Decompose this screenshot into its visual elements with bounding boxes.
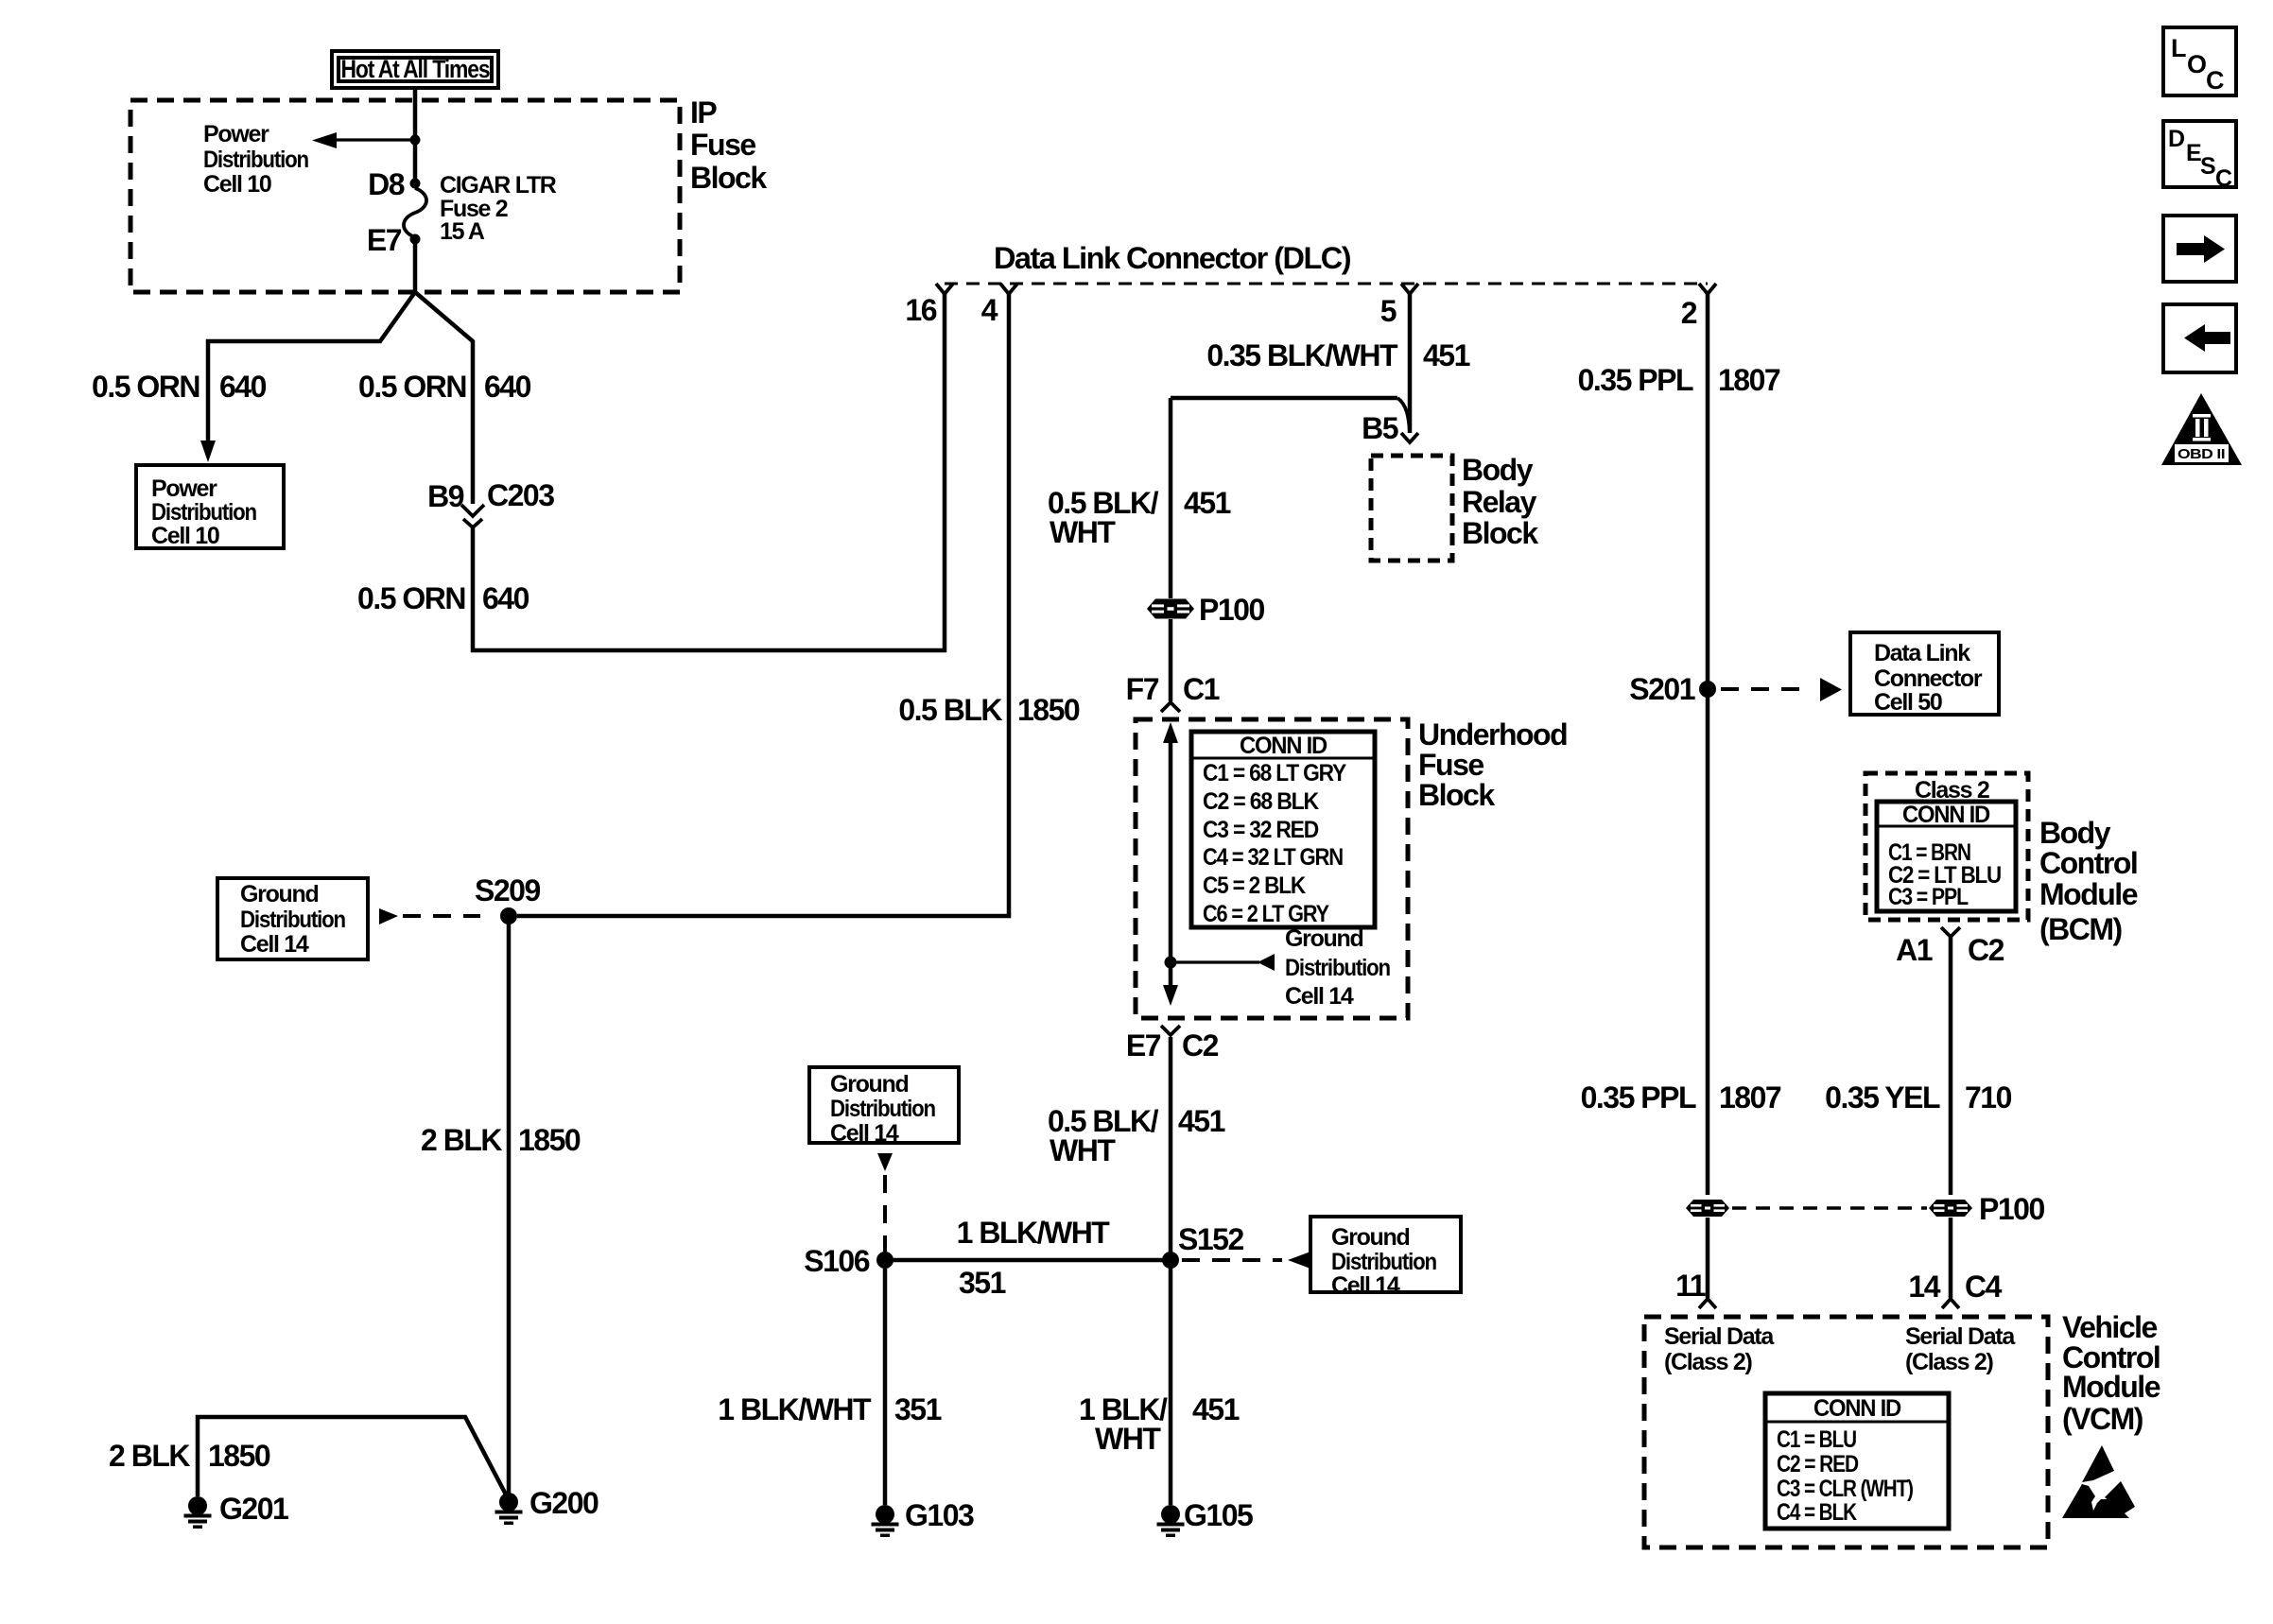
- Body Control Module dashed box: [1865, 773, 2028, 920]
- label: 0.5 BLK/ WHT 451: [1048, 486, 1231, 549]
- svg-text:451: 451: [1423, 338, 1470, 372]
- svg-text:0.35 PPL: 0.35 PPL: [1581, 1080, 1696, 1114]
- icon DESC box: [2163, 121, 2236, 192]
- icon left-arrow box: [2163, 304, 2236, 372]
- pin 11 chevron: [1699, 1299, 1716, 1308]
- svg-text:0.5 ORN: 0.5 ORN: [92, 370, 200, 404]
- svg-text:C4 = BLK: C4 = BLK: [1777, 1499, 1857, 1526]
- Underhood Fuse Block dashed box: [1136, 719, 1408, 1018]
- svg-text:IP: IP: [690, 95, 717, 130]
- label: 0.35 YEL 710: [1825, 1080, 2011, 1114]
- pin 5 fork: [1401, 284, 1418, 294]
- svg-text:Cell 10: Cell 10: [151, 523, 219, 549]
- svg-text:451: 451: [1178, 1104, 1225, 1138]
- svg-text:D8: D8: [368, 167, 405, 201]
- label: 1 BLK/WHT 351: [957, 1216, 1111, 1300]
- svg-text:Underhood: Underhood: [1418, 717, 1567, 752]
- svg-text:Power: Power: [203, 121, 269, 147]
- svg-text:C2: C2: [1182, 1028, 1219, 1063]
- wire: 0.5 BLK/WHT 451 from C2 down to S152 and G105: [1169, 1037, 1173, 1505]
- wire: S209 down to G200: [507, 916, 512, 1494]
- svg-text:G103: G103: [905, 1498, 974, 1532]
- svg-text:2 BLK: 2 BLK: [109, 1439, 190, 1473]
- svg-text:Vehicle: Vehicle: [2062, 1310, 2158, 1344]
- svg-text:Block: Block: [1418, 778, 1495, 812]
- arrow down into Power Distribution box: [200, 441, 216, 462]
- wire: ORN 640 below C203, over to DLC pin 16: [473, 294, 945, 650]
- svg-text:15 A: 15 A: [440, 218, 485, 245]
- svg-text:640: 640: [482, 581, 529, 615]
- svg-text:D: D: [2168, 126, 2184, 152]
- svg-text:P100: P100: [1199, 593, 1264, 627]
- svg-text:(Class 2): (Class 2): [1664, 1349, 1752, 1375]
- reference dashed from box down to S106: [877, 1153, 893, 1171]
- svg-text:S106: S106: [804, 1244, 869, 1278]
- ground G201: [184, 1492, 288, 1529]
- wire: DLC pin 2 PPL 1807 down to VCM pin 11: [1706, 294, 1710, 1195]
- svg-text:Relay: Relay: [1462, 485, 1537, 519]
- arrow to Power Distribution Cell 10: [312, 132, 337, 148]
- svg-text:E: E: [2186, 140, 2201, 166]
- icon: ESD sensitive symbol: [2062, 1445, 2135, 1518]
- svg-text:CIGAR LTR: CIGAR LTR: [440, 172, 557, 199]
- svg-text:Block: Block: [690, 161, 767, 195]
- label: 1 BLK/WHT 351 (down leg): [718, 1392, 941, 1426]
- svg-text:Serial Data: Serial Data: [1905, 1323, 2016, 1350]
- svg-text:Cell 10: Cell 10: [203, 171, 271, 198]
- ground G105: [1157, 1498, 1253, 1537]
- svg-text:C2 = 68 BLK: C2 = 68 BLK: [1203, 788, 1319, 815]
- svg-text:Distribution: Distribution: [1285, 955, 1390, 981]
- node: junction dot in fuse block: [1165, 957, 1177, 969]
- connector C2 terminal A1 chevron (BCM): [1941, 927, 1960, 937]
- label: CIGAR LTR Fuse 2 15 A: [440, 172, 557, 245]
- svg-text:Cell 50: Cell 50: [1874, 689, 1942, 716]
- svg-text:Ground: Ground: [1331, 1224, 1409, 1251]
- label: 0.35 PPL 1807 (lower): [1581, 1080, 1781, 1114]
- svg-text:0.35 BLK/WHT: 0.35 BLK/WHT: [1206, 338, 1398, 372]
- icon OBD II triangle: [2161, 393, 2242, 465]
- svg-text:L: L: [2171, 34, 2186, 62]
- svg-text:4: 4: [981, 293, 998, 327]
- svg-text:Cell 14: Cell 14: [240, 931, 309, 958]
- label: Body Relay Block: [1462, 453, 1538, 550]
- Vehicle Control Module dashed box: [1644, 1317, 2048, 1547]
- svg-text:CONN ID: CONN ID: [1240, 733, 1327, 759]
- reference dashed from S201 to Data Link Connector Cell 50: [1721, 687, 1812, 691]
- svg-text:C5 = 2 BLK: C5 = 2 BLK: [1203, 872, 1306, 899]
- label: Serial Data (Class 2) pin 11: [1664, 1323, 1775, 1375]
- svg-text:OBD II: OBD II: [2178, 446, 2225, 462]
- svg-text:S152: S152: [1178, 1222, 1243, 1256]
- svg-text:Module: Module: [2039, 877, 2138, 911]
- svg-text:(BCM): (BCM): [2039, 912, 2123, 946]
- svg-text:5: 5: [1380, 294, 1397, 328]
- svg-text:C2 = RED: C2 = RED: [1777, 1451, 1858, 1477]
- wire: YEL into VCM pin 14: [1949, 1218, 1953, 1298]
- wire: DLC pin 4 BLK 1850 down and left to S209: [517, 294, 1009, 916]
- svg-text:C3 = PPL: C3 = PPL: [1888, 884, 1969, 910]
- svg-text:Body: Body: [2039, 816, 2111, 850]
- wire: Hot feed into fuse block: [413, 88, 418, 183]
- connector C2 terminal E7 chevron: [1161, 1026, 1180, 1035]
- node: Ground Distribution Cell 14 box (left): [217, 878, 368, 959]
- svg-text:C3 = CLR (WHT): C3 = CLR (WHT): [1777, 1476, 1914, 1502]
- svg-text:Fuse: Fuse: [690, 128, 755, 162]
- reference line to Ground Distribution Cell 14 (internal): [1176, 960, 1259, 963]
- ground G103: [872, 1498, 974, 1537]
- svg-text:CONN ID: CONN ID: [1813, 1395, 1900, 1422]
- svg-text:Serial Data: Serial Data: [1664, 1323, 1775, 1350]
- svg-text:11: 11: [1675, 1269, 1706, 1303]
- pin E7 terminal dot: [410, 234, 421, 245]
- node: branch junction: [410, 135, 421, 146]
- svg-text:1807: 1807: [1718, 363, 1780, 397]
- svg-text:451: 451: [1184, 486, 1231, 520]
- node: CONN ID table (underhood): [1191, 732, 1375, 927]
- svg-text:E7: E7: [367, 223, 402, 257]
- wire: PPL into VCM pin 11: [1706, 1218, 1710, 1298]
- svg-text:C: C: [2206, 66, 2224, 95]
- svg-text:C6 = 2 LT GRY: C6 = 2 LT GRY: [1203, 901, 1329, 927]
- svg-text:640: 640: [484, 370, 531, 404]
- svg-text:0.35 YEL: 0.35 YEL: [1825, 1080, 1940, 1114]
- svg-text:G201: G201: [219, 1492, 288, 1526]
- splice S209 junction dot: [500, 907, 517, 924]
- pin 16 fork: [936, 284, 953, 294]
- svg-text:C3 = 32 RED: C3 = 32 RED: [1203, 817, 1318, 843]
- wire: Y-split left branch: [208, 292, 415, 442]
- svg-text:Block: Block: [1462, 516, 1538, 550]
- svg-text:F7: F7: [1126, 672, 1159, 706]
- grommet P100 (right, YEL wire): [1929, 1200, 1972, 1217]
- label: 0.35 BLK/WHT 451: [1206, 338, 1469, 372]
- pin 14 chevron: [1942, 1299, 1959, 1308]
- node: Power Distribution Cell 10 box: [136, 465, 284, 549]
- svg-text:710: 710: [1965, 1080, 2012, 1114]
- svg-text:Ground: Ground: [1285, 925, 1362, 952]
- svg-text:2 BLK: 2 BLK: [421, 1123, 502, 1157]
- svg-text:0.35 PPL: 0.35 PPL: [1578, 363, 1693, 397]
- label: 0.5 BLK/ WHT 451 (below C2): [1048, 1104, 1225, 1167]
- svg-text:2: 2: [1681, 296, 1697, 330]
- pin 2 fork: [1699, 284, 1716, 294]
- reference dashed to Ground Distribution Cell 14 (right): [1182, 1258, 1282, 1262]
- svg-text:S: S: [2200, 153, 2215, 180]
- svg-text:B5: B5: [1362, 411, 1398, 445]
- svg-text:G200: G200: [529, 1486, 599, 1520]
- label: Serial Data (Class 2) pin 14: [1905, 1323, 2016, 1375]
- svg-text:1850: 1850: [1017, 693, 1080, 727]
- svg-text:1 BLK/WHT: 1 BLK/WHT: [957, 1216, 1111, 1250]
- svg-text:Connector: Connector: [1874, 665, 1983, 692]
- connector C203 terminal B9 double chevron: [461, 505, 484, 516]
- svg-text:O: O: [2187, 50, 2206, 78]
- svg-text:Distribution: Distribution: [203, 147, 308, 173]
- svg-text:0.5 BLK: 0.5 BLK: [898, 693, 1002, 727]
- svg-text:14: 14: [1908, 1270, 1940, 1304]
- svg-text:Module: Module: [2062, 1370, 2160, 1404]
- wire: S106 to S152: [885, 1258, 1171, 1263]
- svg-text:1850: 1850: [208, 1439, 270, 1473]
- svg-text:1850: 1850: [518, 1123, 581, 1157]
- svg-text:WHT: WHT: [1050, 1133, 1116, 1167]
- label: 0.5 BLK 1850: [898, 693, 1080, 727]
- svg-text:Distribution: Distribution: [830, 1096, 935, 1122]
- label: Body Control Module (BCM): [2039, 816, 2138, 946]
- svg-text:C4 = 32 LT GRN: C4 = 32 LT GRN: [1203, 844, 1343, 871]
- arrow down inside fuse block: [1163, 985, 1178, 1006]
- svg-text:0.5 ORN: 0.5 ORN: [358, 370, 466, 404]
- node: CONN ID table (VCM): [1765, 1393, 1949, 1529]
- pin D8 terminal dot: [410, 179, 421, 189]
- grommet P100 (left, PPL wire): [1686, 1200, 1729, 1217]
- svg-text:Ground: Ground: [830, 1071, 908, 1097]
- node: Data Link Connector Cell 50 box: [1850, 632, 1999, 716]
- svg-text:B9: B9: [427, 479, 464, 513]
- label: Power Distribution Cell 10 (in fuse block): [203, 121, 308, 198]
- wire: 0.5 BLK/WHT 451 down to P100: [1169, 398, 1173, 598]
- svg-text:Power: Power: [151, 475, 217, 502]
- node: Ground Distribution Cell 14 box (right): [1310, 1217, 1461, 1299]
- svg-text:(Class 2): (Class 2): [1905, 1349, 1993, 1375]
- label: 2 BLK 1850 (S209 to G200): [421, 1123, 581, 1157]
- wire: P100 down to C1: [1169, 619, 1173, 701]
- svg-text:Distribution: Distribution: [151, 499, 256, 526]
- svg-text:Cell 14: Cell 14: [1331, 1272, 1400, 1299]
- svg-text:Fuse: Fuse: [1418, 748, 1484, 782]
- svg-text:451: 451: [1192, 1392, 1240, 1426]
- svg-text:0.5 ORN: 0.5 ORN: [357, 581, 465, 615]
- svg-text:C203: C203: [487, 478, 554, 512]
- svg-text:C4: C4: [1965, 1270, 2003, 1304]
- svg-text:Distribution: Distribution: [240, 907, 345, 933]
- node: Hot At All Times box: [332, 51, 498, 88]
- svg-text:S201: S201: [1629, 672, 1694, 706]
- wire: E7 down to block edge: [413, 237, 418, 292]
- splice S201 junction dot: [1699, 681, 1716, 698]
- wire: BLK/WHT 451 branch from P100 riser to B5: [1171, 396, 1397, 401]
- svg-text:C: C: [2215, 165, 2232, 192]
- label: Ground Distribution Cell 14 (internal): [1285, 925, 1390, 1010]
- svg-text:Distribution: Distribution: [1331, 1249, 1436, 1275]
- svg-text:C2: C2: [1968, 933, 2004, 967]
- svg-text:Cell 14: Cell 14: [830, 1120, 899, 1147]
- svg-text:WHT: WHT: [1050, 515, 1116, 549]
- svg-text:WHT: WHT: [1095, 1422, 1161, 1456]
- IP Fuse Block dashed box: [130, 100, 680, 292]
- node: Ground Distribution Cell 14 box (above S106): [809, 1067, 959, 1147]
- svg-text:351: 351: [959, 1266, 1006, 1300]
- label: Underhood Fuse Block: [1418, 717, 1567, 812]
- svg-text:(VCM): (VCM): [2062, 1402, 2143, 1436]
- svg-text:Control: Control: [2039, 846, 2137, 880]
- wire: Y-split right branch down to C203: [415, 292, 473, 504]
- wire: 0.35 YEL 710 from BCM A1 down to VCM pin 14: [1949, 937, 1953, 1195]
- splice S152 junction dot: [1162, 1252, 1179, 1269]
- label: 0.5 ORN 640 (below C203): [357, 581, 529, 615]
- svg-text:G105: G105: [1184, 1498, 1253, 1532]
- svg-text:C1 = BLU: C1 = BLU: [1777, 1426, 1856, 1453]
- wire: branch to Power Distribution arrow: [335, 138, 415, 141]
- svg-text:Data Link Connector (DLC): Data Link Connector (DLC): [994, 241, 1351, 275]
- icon right-arrow box: [2163, 216, 2236, 282]
- wire: S106 down to G103: [883, 1260, 888, 1505]
- svg-text:Hot At All Times: Hot At All Times: [341, 55, 490, 83]
- svg-text:1 BLK/WHT: 1 BLK/WHT: [718, 1392, 872, 1426]
- label: 0.5 ORN 640 (left branch): [92, 370, 267, 404]
- pin B5 chevron into Body Relay Block: [1401, 433, 1418, 442]
- label: IP Fuse Block: [690, 95, 767, 195]
- wire: DLC pin 5 down to B5: [1408, 294, 1413, 433]
- svg-text:E7: E7: [1126, 1028, 1161, 1063]
- node: CONN ID table (BCM): [1877, 802, 2016, 911]
- label: 2 BLK 1850 (G201 leg): [109, 1439, 270, 1473]
- ground G200: [495, 1486, 599, 1525]
- svg-text:CONN ID: CONN ID: [1902, 802, 1989, 828]
- label: 0.5 ORN 640 (right branch): [358, 370, 531, 404]
- svg-text:1807: 1807: [1719, 1080, 1781, 1114]
- svg-text:S209: S209: [475, 873, 540, 907]
- fuse F2 CIGAR LTR 15A s-curve element: [404, 188, 426, 237]
- label: 0.35 PPL 1807 (upper): [1578, 363, 1780, 397]
- icon LOC box: [2163, 27, 2236, 95]
- grommet P100 (firewall): [1147, 599, 1194, 619]
- svg-text:Body: Body: [1462, 453, 1534, 487]
- svg-text:Cell 14: Cell 14: [1285, 983, 1354, 1010]
- wire: feed through underhood fuse block: [1169, 739, 1173, 986]
- splice S106 junction dot: [876, 1252, 894, 1269]
- dashed tie between P100 grommets: [1732, 1206, 1927, 1210]
- svg-text:C1 = 68 LT GRY: C1 = 68 LT GRY: [1203, 760, 1346, 786]
- svg-text:16: 16: [905, 293, 936, 327]
- connector C1 terminal F7 chevron: [1161, 702, 1180, 712]
- Body Relay Block dashed box: [1371, 456, 1452, 561]
- arrow up inside fuse block: [1163, 722, 1178, 743]
- label: Vehicle Control Module (VCM): [2062, 1310, 2160, 1436]
- label: 1 BLK/ WHT 451 (down leg to G105): [1079, 1392, 1240, 1456]
- wire: DLC dashed bus line: [945, 283, 1708, 285]
- svg-text:A1: A1: [1896, 933, 1933, 967]
- wire: G201 branch up and over to G200: [198, 1417, 506, 1496]
- svg-text:Ground: Ground: [240, 881, 318, 907]
- reference arrow from Ground Distribution Cell 14 to S209: [379, 908, 398, 924]
- svg-text:Data Link: Data Link: [1874, 640, 1970, 666]
- svg-text:640: 640: [219, 370, 267, 404]
- svg-text:351: 351: [894, 1392, 942, 1426]
- pin 4 fork: [1000, 284, 1017, 294]
- svg-text:P100: P100: [1979, 1192, 2044, 1226]
- svg-text:C1: C1: [1183, 672, 1220, 706]
